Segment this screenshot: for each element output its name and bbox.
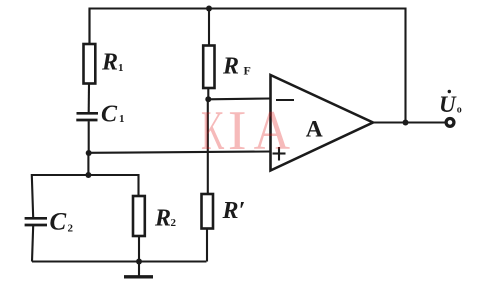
svg-text:A: A bbox=[306, 117, 323, 143]
label A bbox=[306, 117, 323, 143]
wire RF bottom lead bbox=[207, 88, 209, 99]
wire RF junction down to R' bbox=[207, 99, 209, 194]
label Uo bbox=[439, 90, 462, 117]
wire node B to C2 branch bbox=[32, 175, 89, 218]
wire top feedback rail bbox=[90, 9, 406, 123]
label R' bbox=[222, 198, 246, 224]
wire C1 to node A bbox=[88, 121, 90, 153]
wire node A to node B bbox=[87, 153, 89, 175]
svg-text:2: 2 bbox=[171, 217, 177, 229]
label C2 bbox=[50, 209, 74, 236]
capacitor C1 bbox=[76, 113, 98, 120]
svg-text:F: F bbox=[244, 64, 251, 78]
svg-text:R: R bbox=[222, 54, 239, 80]
node A (+ input node) bbox=[86, 150, 92, 156]
svg-text:C: C bbox=[50, 209, 67, 236]
svg-text:2: 2 bbox=[68, 223, 74, 235]
ground bbox=[124, 262, 153, 277]
svg-text:1: 1 bbox=[119, 113, 125, 125]
op-amp minus sign bbox=[276, 99, 294, 101]
node RF top bbox=[206, 6, 212, 12]
node B (top of R2 C2) bbox=[85, 172, 91, 178]
terminal Uo bbox=[446, 119, 454, 127]
label R1 bbox=[101, 50, 124, 76]
svg-text:U: U bbox=[439, 92, 457, 117]
resistor R2 bbox=[133, 196, 145, 236]
svg-text:1: 1 bbox=[118, 62, 124, 74]
resistor RF bbox=[203, 46, 214, 89]
wire bottom rail bbox=[32, 260, 207, 262]
svg-text:o: o bbox=[457, 105, 462, 116]
wire to non-inverting input bbox=[89, 152, 271, 153]
svg-text:R: R bbox=[154, 206, 171, 232]
capacitor C2 bbox=[25, 218, 47, 225]
resistor R' bbox=[202, 194, 214, 229]
resistor R1 bbox=[84, 44, 96, 84]
wire R2 bottom lead bbox=[138, 236, 140, 262]
wire R1 top lead (from top rail) bbox=[88, 9, 90, 45]
svg-text:R′: R′ bbox=[222, 198, 246, 224]
wire RF top lead bbox=[208, 9, 210, 46]
svg-text:C: C bbox=[101, 102, 118, 128]
label R2 bbox=[154, 206, 177, 232]
svg-text:R: R bbox=[101, 50, 118, 76]
op-amp plus sign bbox=[273, 147, 286, 161]
wire R' bottom lead bbox=[206, 229, 208, 262]
label RF bbox=[222, 54, 251, 80]
label C1 bbox=[101, 102, 125, 128]
op-amp A bbox=[271, 75, 374, 171]
wire C2 bottom lead bbox=[32, 225, 33, 261]
node ground junction bbox=[136, 259, 142, 265]
wire output bbox=[373, 121, 445, 123]
wire to inverting input bbox=[208, 97, 270, 100]
wire node B to R2 bbox=[88, 175, 138, 196]
node inverting input junction bbox=[205, 96, 211, 102]
node output junction bbox=[403, 120, 409, 126]
wire R1 to C1 bbox=[88, 84, 90, 113]
